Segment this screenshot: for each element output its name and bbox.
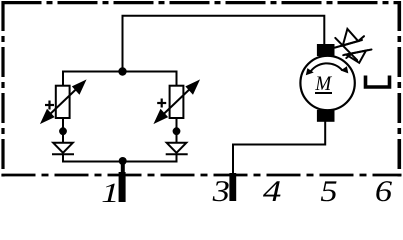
resistor R2 body (right variable resistor) <box>170 86 184 118</box>
resistor R1 body (left variable resistor) <box>56 86 70 118</box>
node B (junction dot on lower bus above terminal 1) <box>119 157 127 165</box>
motor U1 rotation arc arrow <box>306 63 349 75</box>
wire: R1 bottom to diode V1 <box>62 118 64 144</box>
label 3 <box>213 181 229 201</box>
junction dot below R2 <box>173 127 181 135</box>
motor U1 letter M <box>315 77 332 90</box>
frame border bottom (dash-dot) <box>2 174 402 177</box>
wire: right branch drop to resistor R2 <box>176 71 178 87</box>
diode V2 (right, cathode down) <box>166 143 188 154</box>
diode V1 (left, cathode down) <box>52 143 74 154</box>
label 1 <box>102 184 115 202</box>
label 4 <box>263 181 281 201</box>
motor U1 circle <box>300 56 354 110</box>
resistor R2 arrow (variable, double-headed) <box>156 82 199 123</box>
plus label of R2 <box>157 99 166 108</box>
wire: motor bottom to terminal 3 <box>233 122 325 175</box>
wire: V1 to lower bus <box>62 154 64 162</box>
frame border left (dash-dot) <box>1 1 4 177</box>
wire: left branch drop to resistor R1 <box>62 71 64 87</box>
terminal pin 1 <box>119 172 126 202</box>
frame border top (dash-dot) <box>2 1 402 4</box>
suppressor symbol (crossed double diode with strike-through, top right) <box>335 29 372 63</box>
bracket symbol (window frame, right of motor) <box>366 76 390 88</box>
wire: node B down to terminal 1 <box>121 161 125 174</box>
frame border right (dash-dot) <box>397 1 401 177</box>
label 5 <box>321 181 337 201</box>
wire: upper bus connecting both resistor branches <box>63 71 177 73</box>
junction dot below R1 <box>59 127 67 135</box>
resistor R1 arrow (variable, double-headed) <box>42 82 85 123</box>
wire: top horizontal from node A riser to motor top <box>123 16 325 72</box>
wire: lower bus <box>63 161 177 163</box>
wire: R2 bottom to diode V2 <box>176 118 178 144</box>
wire: V2 to lower bus <box>176 154 178 162</box>
motor U1 top brush <box>317 44 335 56</box>
terminal pin 3 <box>229 173 236 201</box>
node A (junction dot on upper bus) <box>118 67 126 75</box>
label 6 <box>376 181 392 201</box>
motor U1 underline <box>315 92 332 94</box>
plus label of R1 <box>45 101 54 110</box>
motor U1 bottom brush <box>317 110 335 122</box>
